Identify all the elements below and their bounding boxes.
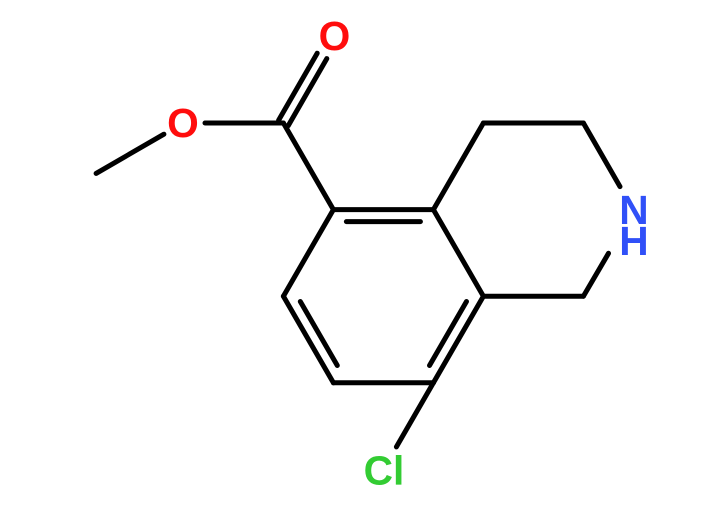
- wire: benzene edge C5-C6: [333, 380, 433, 385]
- wire: ring edge N-C4: [583, 253, 608, 296]
- wire: ring edge C4-C4a: [483, 294, 583, 299]
- svg-text:H: H: [619, 218, 648, 264]
- wire: benzene edge C4a-C5: [433, 296, 483, 383]
- wire: C=O double bond line 2: [279, 53, 318, 120]
- wire: C5 to Cl: [396, 383, 433, 447]
- wire: ring edge C2-N: [583, 123, 620, 187]
- svg-text:Cl: Cl: [364, 448, 405, 494]
- wire: benzene edge C8a-C4a (fused): [433, 210, 483, 297]
- wire: C=O double bond line 1: [288, 59, 327, 126]
- wire: ring edge C8a-C1: [433, 123, 483, 210]
- wire: benzene inner aromatic line right-lower: [430, 302, 467, 366]
- wire: benzene edge C6-C7: [283, 296, 333, 383]
- wire: benzene edge C8-C8a: [333, 207, 433, 212]
- wire: ring edge C1-C2: [483, 121, 583, 126]
- wire: benzene inner aromatic line left-lower: [300, 302, 337, 366]
- svg-text:O: O: [319, 13, 351, 59]
- wire: benzene edge C7-C8: [283, 210, 333, 297]
- wire: benzene inner aromatic line top: [346, 219, 420, 224]
- wire: ester O to carbonyl C: [205, 121, 283, 126]
- svg-text:O: O: [167, 100, 199, 146]
- wire: ester O to methyl CH3: [96, 134, 164, 173]
- wire: carbonyl C to ring C8: [283, 123, 333, 210]
